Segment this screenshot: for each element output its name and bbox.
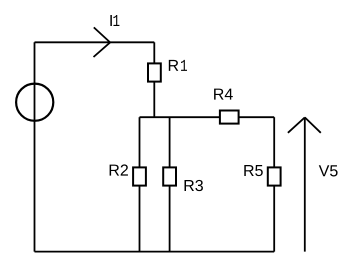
voltage arrow V5 xyxy=(288,117,321,251)
resistor R5 xyxy=(268,167,281,185)
wire R1 bottom lead xyxy=(153,82,155,118)
resistor R3 xyxy=(163,167,176,185)
label R5 xyxy=(244,165,262,176)
label I1 xyxy=(110,15,119,26)
label R1 xyxy=(169,60,187,71)
current arrow I1 xyxy=(94,27,111,57)
wire R3 top lead xyxy=(169,117,171,167)
resistor R4 xyxy=(220,111,239,124)
wire R5 top lead xyxy=(273,117,275,167)
label V5 xyxy=(319,165,338,176)
label R2 xyxy=(110,164,128,175)
current source xyxy=(16,84,53,121)
wire bus right xyxy=(239,116,275,118)
wire bus left xyxy=(140,116,220,118)
wire R3 bottom lead xyxy=(169,186,171,252)
wire top horizontal xyxy=(35,41,155,43)
wire bottom horizontal xyxy=(35,251,275,253)
resistor R1 xyxy=(148,63,161,81)
wire R1 top lead xyxy=(153,42,155,63)
label R4 xyxy=(214,89,233,100)
wire R5 bottom lead xyxy=(273,186,275,252)
wire R2 top lead xyxy=(139,117,141,167)
resistor R2 xyxy=(133,167,146,185)
wire R2 bottom lead xyxy=(139,186,141,252)
wire left vertical xyxy=(34,42,36,251)
label R3 xyxy=(185,180,203,191)
